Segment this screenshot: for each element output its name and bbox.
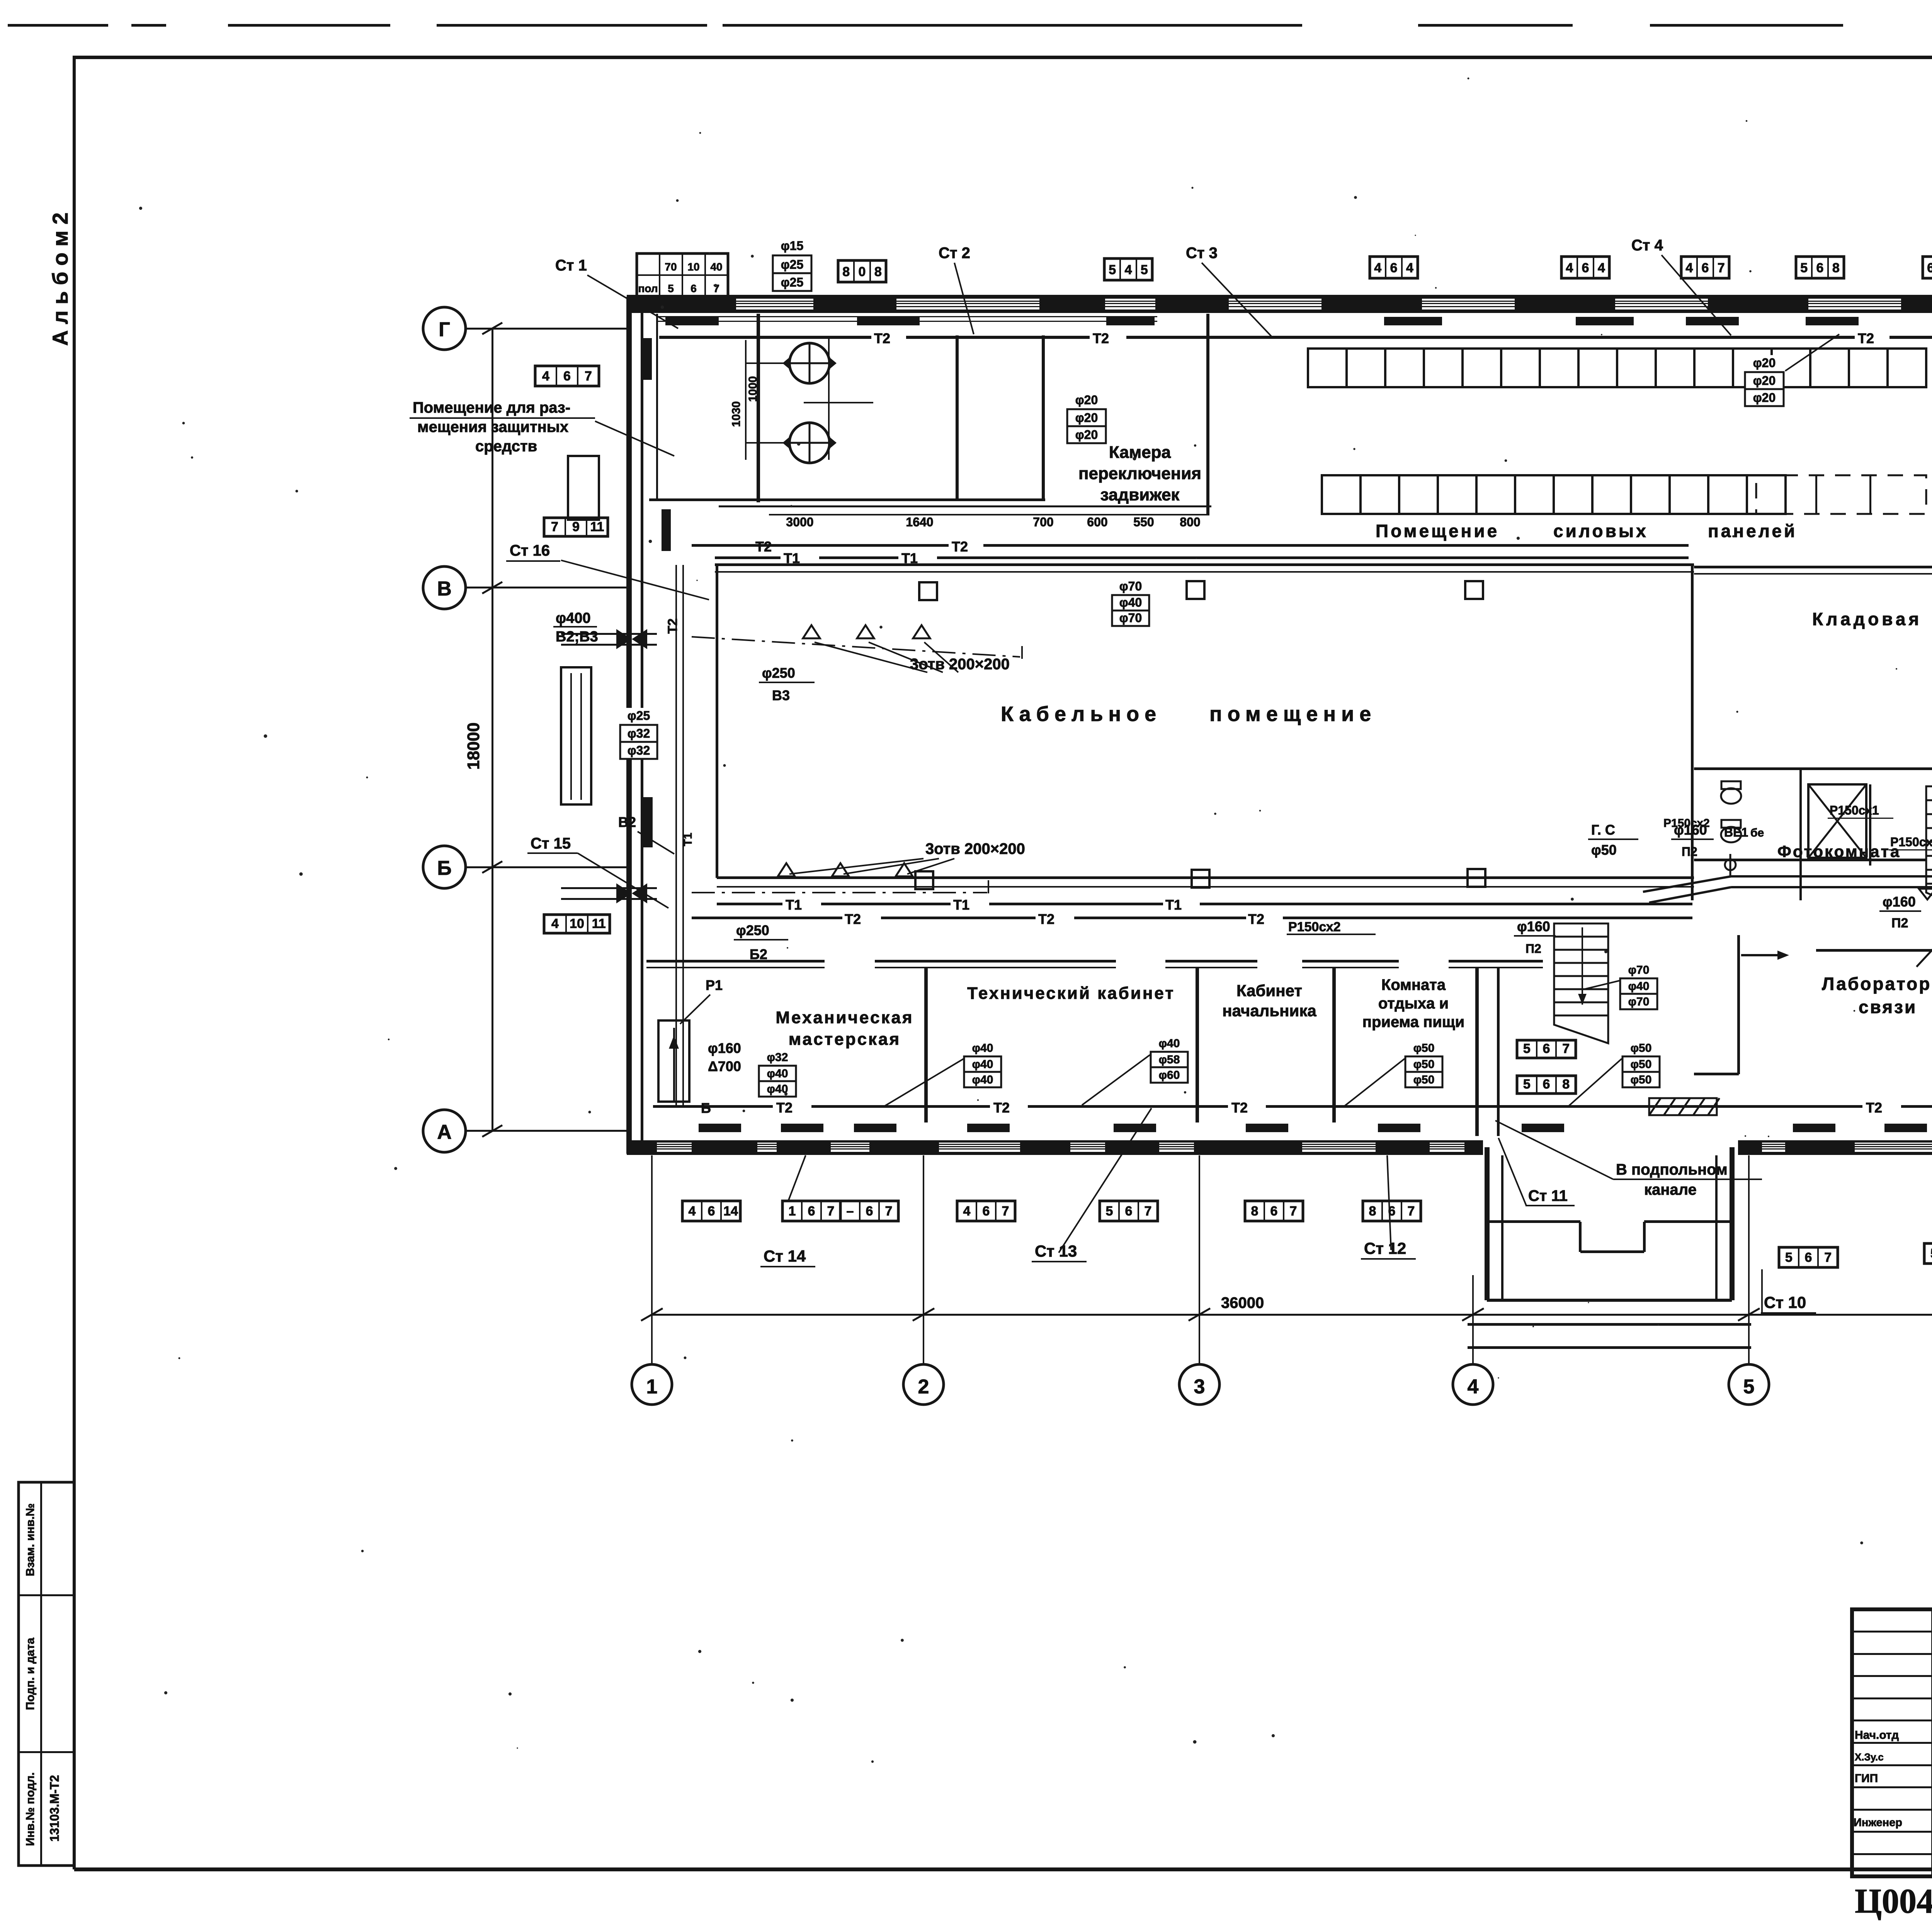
svg-text:Кабинет: Кабинет	[1236, 981, 1302, 1000]
svg-text:φ32: φ32	[628, 743, 650, 757]
svg-text:Г: Г	[439, 318, 450, 341]
bottom border	[74, 1867, 1932, 1871]
svg-text:Т1: Т1	[1165, 897, 1182, 913]
svg-text:Т1: Т1	[682, 833, 694, 846]
svg-text:5: 5	[1743, 1376, 1755, 1398]
grid circle 1	[632, 1364, 672, 1405]
P1 heater left	[658, 1020, 689, 1102]
svg-text:3000: 3000	[786, 515, 813, 529]
north wall pipe channel lines	[657, 316, 1157, 317]
svg-text:переключения: переключения	[1078, 464, 1201, 483]
svg-text:7: 7	[1145, 1204, 1152, 1218]
svg-text:В2;В3: В2;В3	[556, 629, 598, 645]
svg-text:Р1: Р1	[706, 977, 723, 993]
cable room top wall	[715, 563, 1694, 566]
svg-text:4: 4	[689, 1204, 696, 1218]
pipe T2 north run	[659, 336, 871, 339]
box 5-6-7 bottom right	[1779, 1247, 1838, 1267]
svg-text:4: 4	[542, 369, 549, 383]
svg-text:1: 1	[646, 1376, 658, 1398]
svg-text:4: 4	[963, 1204, 971, 1218]
svg-text:Ст 10: Ст 10	[1764, 1293, 1806, 1311]
box 8-8-8	[838, 260, 886, 282]
bottom dimension line 36000	[652, 1314, 1932, 1316]
wc shower cross	[1808, 784, 1866, 858]
svg-text:5: 5	[1523, 1041, 1531, 1056]
stairs left hall	[1554, 923, 1608, 1043]
svg-text:В подпольном: В подпольном	[1616, 1161, 1728, 1178]
svg-text:5: 5	[1109, 262, 1116, 277]
svg-text:Нач.отд: Нач.отд	[1855, 1729, 1899, 1742]
left sign table rows	[1852, 1631, 1932, 1633]
lab room entry walls	[1737, 935, 1740, 1074]
box 4-6-4 b	[1561, 257, 1609, 278]
squares row 2 dashed	[1756, 475, 1926, 514]
svg-text:4: 4	[1685, 260, 1693, 275]
box 5-7-8 bottom right	[1924, 1243, 1932, 1264]
svg-text:18000: 18000	[464, 723, 483, 770]
top broken border line	[8, 24, 108, 27]
radiators north wall	[665, 317, 719, 325]
svg-text:5: 5	[1785, 1250, 1793, 1265]
water inlet lower	[561, 887, 657, 889]
left outside channel upper	[568, 456, 599, 520]
svg-text:Р150сх1: Р150сх1	[1830, 803, 1879, 817]
svg-text:φ70: φ70	[1628, 964, 1650, 976]
svg-text:Ст 14: Ст 14	[764, 1247, 806, 1265]
svg-text:6: 6	[808, 1204, 815, 1218]
svg-text:φ40: φ40	[972, 1058, 993, 1071]
svg-text:13103.М-Т2: 13103.М-Т2	[48, 1775, 61, 1842]
grid line 1	[651, 1155, 653, 1364]
svg-text:Т2: Т2	[776, 1100, 793, 1116]
svg-text:φ25: φ25	[781, 258, 803, 272]
phi32 stack mech	[757, 1050, 798, 1066]
svg-text:Ст 3: Ст 3	[1186, 245, 1218, 262]
svg-text:10: 10	[687, 261, 699, 273]
svg-text:φ50: φ50	[1413, 1042, 1435, 1054]
cable room left wall	[716, 565, 718, 878]
T2 pipe bottom rooms	[653, 1105, 773, 1108]
svg-text:Подп. и дата: Подп. и дата	[24, 1638, 37, 1710]
main title block frame	[1852, 1609, 1932, 1876]
cable room right wall	[1691, 565, 1694, 900]
svg-text:Б: Б	[701, 1100, 711, 1116]
svg-text:550: 550	[1133, 515, 1154, 529]
phi70 stack stairs	[1618, 963, 1660, 978]
svg-text:φ50: φ50	[1631, 1058, 1652, 1071]
svg-text:Т2: Т2	[952, 539, 968, 554]
wc fixtures	[1721, 788, 1741, 804]
svg-text:А: А	[437, 1121, 452, 1143]
svg-text:φ50: φ50	[1413, 1073, 1435, 1086]
svg-text:отдыха и: отдыха и	[1378, 995, 1449, 1012]
svg-text:Т2: Т2	[1038, 911, 1054, 927]
svg-text:В2: В2	[618, 814, 636, 830]
svg-text:Т2: Т2	[1231, 1100, 1248, 1116]
phi50 stack right	[1620, 1041, 1662, 1056]
svg-text:4: 4	[1598, 260, 1605, 275]
svg-text:Инженер: Инженер	[1854, 1816, 1902, 1829]
bottom rooms top wall	[646, 960, 825, 963]
svg-text:ГИП: ГИП	[1855, 1772, 1878, 1785]
svg-text:600: 600	[1087, 515, 1107, 529]
svg-text:5: 5	[1930, 1246, 1932, 1261]
svg-text:φ50: φ50	[1631, 1042, 1652, 1054]
svg-text:Т1: Т1	[953, 897, 969, 913]
svg-text:1: 1	[789, 1204, 796, 1218]
svg-text:Δ700: Δ700	[708, 1058, 741, 1074]
svg-text:мастерская: мастерская	[789, 1030, 901, 1049]
svg-text:Х.Зу.с: Х.Зу.с	[1855, 1751, 1884, 1763]
svg-text:1640: 1640	[906, 515, 933, 529]
svg-text:Р150сх2: Р150сх2	[1288, 920, 1341, 934]
svg-text:4: 4	[1374, 260, 1381, 275]
svg-text:П2: П2	[1682, 845, 1697, 859]
svg-text:Ст 1: Ст 1	[555, 257, 587, 274]
svg-text:φ20: φ20	[1075, 393, 1098, 407]
svg-text:средств: средств	[475, 438, 537, 455]
grid circle В	[423, 566, 466, 609]
svg-text:3отв 200×200: 3отв 200×200	[910, 656, 1010, 673]
svg-text:φ50: φ50	[1631, 1073, 1652, 1086]
svg-text:Камера: Камера	[1109, 443, 1171, 462]
svg-text:11: 11	[590, 520, 604, 534]
phi40 stack tech	[962, 1041, 1003, 1056]
storeroom bottom wall	[1694, 767, 1932, 770]
svg-text:6: 6	[1543, 1041, 1550, 1056]
svg-text:φ160: φ160	[708, 1040, 741, 1056]
water inlet B2 B3 upper	[561, 633, 657, 635]
svg-text:П2: П2	[1891, 916, 1908, 930]
svg-text:4: 4	[1406, 260, 1413, 275]
svg-text:Инв.№ подл.: Инв.№ подл.	[24, 1772, 37, 1846]
svg-text:Т2: Т2	[874, 330, 890, 346]
svg-text:4: 4	[1468, 1376, 1479, 1398]
svg-text:φ400: φ400	[556, 610, 591, 626]
partition 2	[1196, 968, 1199, 1122]
svg-text:Механическая: Механическая	[776, 1008, 913, 1027]
table top-left 8 cells	[637, 253, 728, 297]
south wall	[627, 1140, 1483, 1155]
vertical pipe in pump room	[828, 337, 830, 460]
box 4-6-7 top	[1681, 257, 1729, 278]
svg-text:11: 11	[592, 917, 606, 931]
pipe band lower T2	[692, 917, 842, 919]
svg-text:2: 2	[918, 1376, 929, 1398]
phi15 stack top	[770, 238, 814, 255]
svg-text:5: 5	[1141, 262, 1148, 277]
svg-text:φ250: φ250	[762, 665, 795, 681]
svg-text:φ40: φ40	[767, 1067, 788, 1080]
svg-text:8: 8	[1369, 1204, 1376, 1218]
box 5-4-5	[1104, 259, 1152, 280]
pump 2	[789, 423, 830, 463]
label 7-9-11 left	[544, 518, 608, 536]
grid circle 4	[1453, 1364, 1493, 1405]
grid circle 3	[1179, 1364, 1219, 1405]
svg-text:6: 6	[690, 282, 697, 294]
svg-text:Ст 11: Ст 11	[1528, 1187, 1568, 1204]
scan speckles	[1746, 120, 1748, 122]
svg-text:φ70: φ70	[1628, 995, 1650, 1008]
riser shaft lines west	[675, 565, 677, 1107]
svg-text:Т1: Т1	[786, 897, 802, 913]
porch left wall	[1485, 1147, 1490, 1300]
phi25 stack west	[618, 708, 660, 725]
svg-text:φ25: φ25	[781, 276, 803, 289]
west wall risers	[643, 338, 652, 380]
pump room dim lines	[745, 340, 747, 460]
grid line 5	[1748, 1155, 1750, 1364]
partition 1	[924, 968, 928, 1122]
svg-text:7: 7	[1002, 1204, 1009, 1218]
svg-text:φ20: φ20	[1753, 356, 1776, 370]
pump 1	[789, 343, 830, 383]
svg-text:6: 6	[1390, 260, 1398, 275]
svg-text:7: 7	[1718, 260, 1725, 275]
svg-text:связи: связи	[1859, 997, 1917, 1017]
phi50 stack rest	[1403, 1041, 1445, 1056]
svg-text:5: 5	[1106, 1204, 1113, 1218]
svg-text:ВЕ1: ВЕ1	[1724, 825, 1748, 839]
svg-text:В3: В3	[772, 687, 790, 703]
svg-text:6: 6	[1270, 1204, 1278, 1218]
stairs right	[1926, 786, 1932, 923]
svg-text:канале: канале	[1644, 1181, 1697, 1198]
box 6-6-8 top	[1923, 257, 1932, 278]
svg-text:4: 4	[551, 917, 559, 931]
grid circle Б	[423, 846, 466, 888]
svg-text:φ160: φ160	[1674, 822, 1707, 838]
svg-text:Т2: Т2	[755, 539, 772, 554]
porch right wall	[1730, 1147, 1735, 1300]
svg-text:П2: П2	[1526, 942, 1541, 956]
svg-text:Т2: Т2	[1093, 330, 1109, 346]
svg-text:800: 800	[1180, 515, 1200, 529]
svg-text:70: 70	[665, 261, 677, 273]
svg-text:6: 6	[563, 369, 571, 383]
wall camera room left	[1042, 335, 1045, 500]
north wall	[627, 295, 1932, 313]
pipe band upper T1	[715, 556, 781, 559]
svg-text:φ20: φ20	[1753, 374, 1776, 388]
wall camera room right	[1206, 314, 1209, 514]
svg-text:Ц00437-02: Ц00437-02	[1855, 1882, 1932, 1920]
svg-text:Помещение: Помещение	[1376, 521, 1499, 541]
wall below top-left rooms	[649, 498, 1045, 501]
svg-text:φ50: φ50	[1591, 842, 1617, 858]
left grid dim line 18000	[492, 328, 493, 1131]
svg-text:φ50: φ50	[1413, 1058, 1435, 1071]
svg-text:Т2: Т2	[1866, 1100, 1882, 1116]
svg-text:начальника: начальника	[1222, 1002, 1316, 1020]
P2 vent duct	[1731, 875, 1932, 878]
svg-text:7: 7	[827, 1204, 835, 1218]
svg-text:7: 7	[551, 520, 558, 534]
svg-text:8: 8	[1562, 1077, 1570, 1092]
phi20 stack center	[1065, 392, 1108, 409]
south wall windows	[657, 1143, 692, 1152]
svg-text:Т2: Т2	[993, 1100, 1010, 1116]
svg-text:φ250: φ250	[736, 922, 769, 938]
svg-text:3отв 200×200: 3отв 200×200	[925, 840, 1025, 857]
svg-text:φ40: φ40	[1159, 1037, 1180, 1050]
svg-text:Ст 12: Ст 12	[1364, 1239, 1406, 1257]
svg-text:3: 3	[1194, 1376, 1205, 1398]
svg-text:А л ь б о м 2: А л ь б о м 2	[48, 213, 72, 346]
grid circle Г	[423, 307, 466, 350]
svg-text:7: 7	[1562, 1041, 1570, 1056]
svg-text:5: 5	[668, 282, 674, 294]
svg-text:40: 40	[710, 261, 722, 273]
left vertical table	[19, 1482, 74, 1866]
svg-text:6: 6	[1927, 260, 1932, 275]
grid line Б	[466, 866, 628, 868]
svg-text:Ст 13: Ст 13	[1035, 1242, 1077, 1260]
grid circle 2	[903, 1364, 944, 1405]
svg-text:Кабельное: Кабельное	[1001, 702, 1162, 726]
svg-text:помещение: помещение	[1209, 702, 1376, 726]
svg-text:силовых: силовых	[1553, 521, 1648, 541]
grid line 4	[1472, 1298, 1474, 1364]
svg-text:Б: Б	[437, 857, 451, 879]
box 5-6-8 top	[1796, 257, 1844, 278]
svg-text:φ40: φ40	[1628, 980, 1650, 993]
svg-text:приема пищи: приема пищи	[1362, 1014, 1464, 1031]
svg-text:7: 7	[1824, 1250, 1832, 1265]
camera room dim line	[769, 514, 1209, 515]
svg-text:φ60: φ60	[1159, 1069, 1180, 1082]
svg-text:φ20: φ20	[1075, 411, 1098, 425]
svg-text:Т1: Т1	[784, 550, 800, 566]
grid line В	[466, 587, 628, 588]
svg-text:Б2: Б2	[750, 946, 767, 962]
left border	[73, 57, 76, 1869]
hall wall right	[1497, 968, 1500, 1136]
grid line 2	[923, 1155, 924, 1364]
svg-text:Т2: Т2	[665, 618, 680, 634]
svg-text:Ст 15: Ст 15	[531, 835, 571, 852]
svg-text:Т2: Т2	[845, 911, 861, 927]
svg-text:4: 4	[1125, 262, 1132, 277]
svg-text:5: 5	[1800, 260, 1808, 275]
grid circle А	[423, 1110, 466, 1152]
svg-text:панелей: панелей	[1708, 521, 1797, 541]
svg-text:6: 6	[983, 1204, 990, 1218]
svg-text:6: 6	[1582, 260, 1589, 275]
svg-text:7: 7	[885, 1204, 893, 1218]
svg-text:7: 7	[585, 369, 592, 383]
svg-text:6: 6	[1125, 1204, 1133, 1218]
svg-text:φ70: φ70	[1119, 579, 1142, 593]
svg-text:Комната: Комната	[1381, 976, 1446, 993]
pipe band upper T2	[692, 544, 867, 547]
box 5-6-7 mid	[1517, 1040, 1576, 1058]
storeroom top wall	[1694, 566, 1932, 568]
svg-text:1030: 1030	[730, 401, 743, 427]
wc partitions	[1799, 769, 1802, 900]
svg-text:Г. С: Г. С	[1591, 822, 1615, 838]
grid line Г	[466, 328, 628, 330]
porch bottom	[1487, 1299, 1732, 1302]
svg-text:Взам. инв.№: Взам. инв.№	[24, 1503, 37, 1577]
svg-text:мещения защитных: мещения защитных	[417, 418, 568, 435]
svg-text:6: 6	[1702, 260, 1709, 275]
west wall	[626, 297, 632, 1154]
3otv upper triangles	[803, 625, 820, 638]
label 4-6-7 left	[535, 366, 599, 386]
svg-text:пол: пол	[638, 282, 658, 294]
top border	[73, 56, 1932, 59]
pipe band lower T1	[717, 903, 782, 905]
svg-text:9: 9	[572, 520, 580, 534]
svg-text:8: 8	[1251, 1204, 1259, 1218]
squares row 1	[1308, 349, 1347, 387]
svg-text:1000: 1000	[747, 376, 759, 402]
svg-text:φ20: φ20	[1753, 391, 1776, 405]
svg-text:В: В	[437, 578, 452, 600]
svg-text:8: 8	[1832, 260, 1840, 275]
svg-text:Ст 16: Ст 16	[510, 542, 550, 559]
bottom row boxes	[682, 1201, 740, 1221]
partition 4	[1475, 968, 1479, 1136]
phi70 stack top mid	[1110, 580, 1151, 595]
svg-text:7: 7	[1290, 1204, 1297, 1218]
svg-text:Ст 2: Ст 2	[939, 245, 970, 262]
svg-text:Т2: Т2	[1248, 911, 1264, 927]
label 4-10-11 left	[544, 915, 610, 933]
svg-text:φ40: φ40	[1119, 595, 1142, 609]
svg-text:задвижек: задвижек	[1100, 485, 1180, 504]
svg-text:φ160: φ160	[1517, 918, 1550, 934]
radiators south wall	[699, 1124, 741, 1132]
svg-text:7: 7	[1408, 1204, 1415, 1218]
svg-text:–: –	[847, 1204, 854, 1218]
svg-text:Т1: Т1	[901, 550, 918, 566]
box 4-6-4 a	[1370, 257, 1418, 278]
svg-text:φ58: φ58	[1159, 1053, 1180, 1066]
svg-text:Технический кабинет: Технический кабинет	[967, 984, 1175, 1003]
svg-text:6: 6	[1816, 260, 1824, 275]
svg-text:Лаборатория: Лаборатория	[1822, 974, 1932, 994]
cable hatch squares	[919, 582, 937, 600]
porch inner walls	[1489, 1220, 1580, 1223]
left sign table columns	[1931, 1609, 1932, 1876]
north wall windows	[736, 299, 813, 310]
svg-text:φ40: φ40	[972, 1042, 993, 1054]
grid line 3	[1199, 1155, 1200, 1364]
svg-text:0: 0	[859, 264, 866, 279]
svg-text:5: 5	[1523, 1077, 1531, 1092]
partition wall left entry room	[757, 314, 760, 502]
svg-text:φ70: φ70	[1119, 611, 1142, 625]
svg-text:36000: 36000	[1221, 1294, 1264, 1311]
svg-text:Помещение для раз-: Помещение для раз-	[413, 399, 570, 416]
partition 3	[1332, 968, 1336, 1122]
phi20 stack right	[1743, 355, 1786, 372]
pump room right wall	[956, 335, 959, 500]
svg-text:6: 6	[1543, 1077, 1550, 1092]
grid line А	[466, 1130, 628, 1132]
svg-text:8: 8	[874, 264, 882, 279]
svg-text:φ32: φ32	[767, 1051, 788, 1064]
svg-text:Ст 4: Ст 4	[1631, 237, 1663, 254]
svg-text:φ160: φ160	[1883, 894, 1916, 910]
grid circle 5	[1729, 1364, 1769, 1405]
svg-text:6: 6	[866, 1204, 873, 1218]
squares row 2 solid	[1322, 475, 1361, 514]
